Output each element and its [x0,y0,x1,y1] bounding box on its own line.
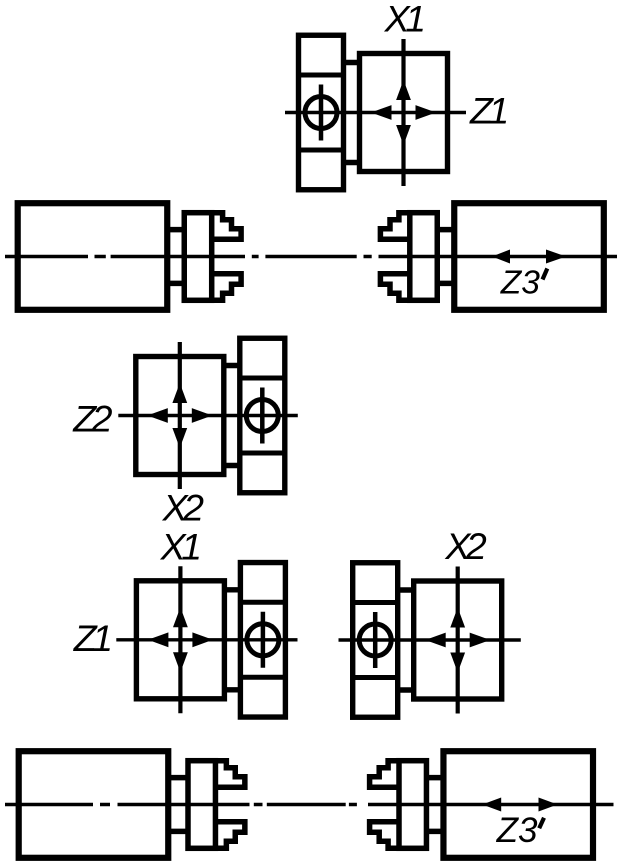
row5 Z3' arrowheads [482,798,557,812]
prime mark row5 [539,818,544,829]
row3 turret unit (mirrored) [136,338,285,493]
svg-text:X1: X1 [160,526,200,568]
row4 right turret unit [353,563,502,718]
prime mark row2 [543,269,548,280]
row3 Z2 centreline [118,414,297,417]
svg-text:X1: X1 [384,0,424,40]
row2 left headstock [18,203,168,310]
row2 left chuck [166,213,241,301]
row4 left turret unit (mirrored) [136,563,285,718]
svg-text:Z3: Z3 [496,811,538,850]
row2 Z3' arrowheads [492,250,566,264]
row5 spindle centreline [5,803,614,806]
row5 right chuck [370,761,445,849]
row2 right headstock [454,203,604,310]
row5 left chuck [170,761,245,849]
svg-text:X2: X2 [162,486,205,528]
row5 left headstock [19,751,169,858]
svg-text:X2: X2 [444,525,487,567]
row2 right chuck [380,213,455,301]
row4 left Z1 centreline [116,638,297,641]
svg-text:Z1: Z1 [469,90,506,132]
row1 turret unit [299,35,448,190]
row5 right headstock [443,751,593,858]
row2 spindle centreline [5,255,617,258]
svg-text:Z2: Z2 [72,398,112,440]
svg-text:Z3: Z3 [500,265,540,302]
svg-text:Z1: Z1 [73,617,110,659]
row1 Z1 centreline [285,111,466,114]
row4 right centreline [339,638,521,641]
